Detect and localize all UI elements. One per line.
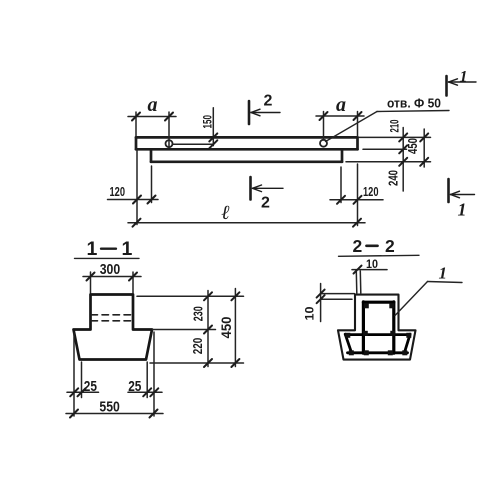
dimension 300 (section 1-1) <box>83 272 141 293</box>
hole right (отв. Ф50) <box>320 140 327 147</box>
reinforcement cage in stem (section 2-2) <box>363 302 393 353</box>
section mark 2 (top) <box>248 101 251 124</box>
dimension line 210/240 <box>402 128 404 192</box>
section 2-2 outline <box>338 295 416 360</box>
svg-text:230: 230 <box>192 306 206 321</box>
svg-text:10: 10 <box>366 259 378 271</box>
dimension line 230/220 <box>207 291 209 367</box>
svg-text:120: 120 <box>110 184 126 199</box>
reinforcement bars in flange (section 2-2) <box>345 334 410 353</box>
rebar dots (section 2-2) <box>345 303 411 355</box>
dimension 25 right <box>128 391 162 393</box>
dimension L <box>128 222 365 224</box>
dimension 150 <box>173 108 214 146</box>
svg-text:1: 1 <box>439 264 448 283</box>
svg-text:2: 2 <box>385 236 395 256</box>
dimension 25 left <box>67 391 99 393</box>
svg-text:240: 240 <box>385 170 400 186</box>
svg-text:220: 220 <box>191 338 205 355</box>
svg-text:a: a <box>148 94 158 116</box>
dimension 120 (bottom right) <box>330 164 383 226</box>
dashed lines in stem (section 1-1) <box>91 315 133 321</box>
beam elevation: lower band outline <box>151 149 342 162</box>
section 1-1 right extension lines <box>137 296 244 363</box>
svg-text:550: 550 <box>99 400 119 416</box>
dimension 10 (left, section 2-2) <box>321 284 355 322</box>
svg-text:450: 450 <box>219 317 234 339</box>
leader and label 1 (section 2-2) <box>395 282 462 316</box>
dimension line 450 (right of beam) <box>423 129 425 167</box>
svg-text:450: 450 <box>405 138 420 154</box>
svg-text:ℓ: ℓ <box>222 202 231 224</box>
svg-text:25: 25 <box>84 378 97 395</box>
label отв. Ф 50 with leader <box>326 111 450 142</box>
dimension a (left) <box>128 112 176 148</box>
svg-text:2: 2 <box>264 93 273 110</box>
dimension 120 (bottom left) <box>108 150 159 225</box>
svg-text:2: 2 <box>261 195 270 212</box>
dimension a (right) <box>316 112 364 141</box>
section 1-1 bottom extension lines <box>74 332 154 416</box>
section 1-1 outline <box>74 295 153 360</box>
section mark 1 (bottom right) <box>447 179 450 202</box>
dimension line 450 (section 1-1) <box>234 289 236 367</box>
section mark 1 (top right) <box>445 76 448 96</box>
right side extension lines of beam <box>346 137 431 161</box>
svg-text:1: 1 <box>87 238 98 260</box>
dimension 550 <box>66 413 163 415</box>
dimension 10 (top, section 2-2) <box>352 270 387 293</box>
svg-text:1: 1 <box>460 69 468 86</box>
beam elevation: top slab outline <box>136 137 358 149</box>
svg-text:a: a <box>336 94 346 116</box>
svg-text:210: 210 <box>388 119 402 132</box>
svg-text:150: 150 <box>203 115 215 129</box>
svg-text:120: 120 <box>363 184 379 199</box>
svg-text:1: 1 <box>458 200 467 220</box>
svg-text:10: 10 <box>305 307 317 321</box>
hole left (отв. Ф50) <box>166 140 173 147</box>
svg-text:2: 2 <box>353 236 363 256</box>
svg-text:отв. Ф 50: отв. Ф 50 <box>387 96 441 111</box>
svg-text:25: 25 <box>128 378 141 395</box>
section mark 2 (bottom) <box>249 177 252 200</box>
svg-text:300: 300 <box>100 261 121 278</box>
svg-text:1: 1 <box>122 238 133 260</box>
